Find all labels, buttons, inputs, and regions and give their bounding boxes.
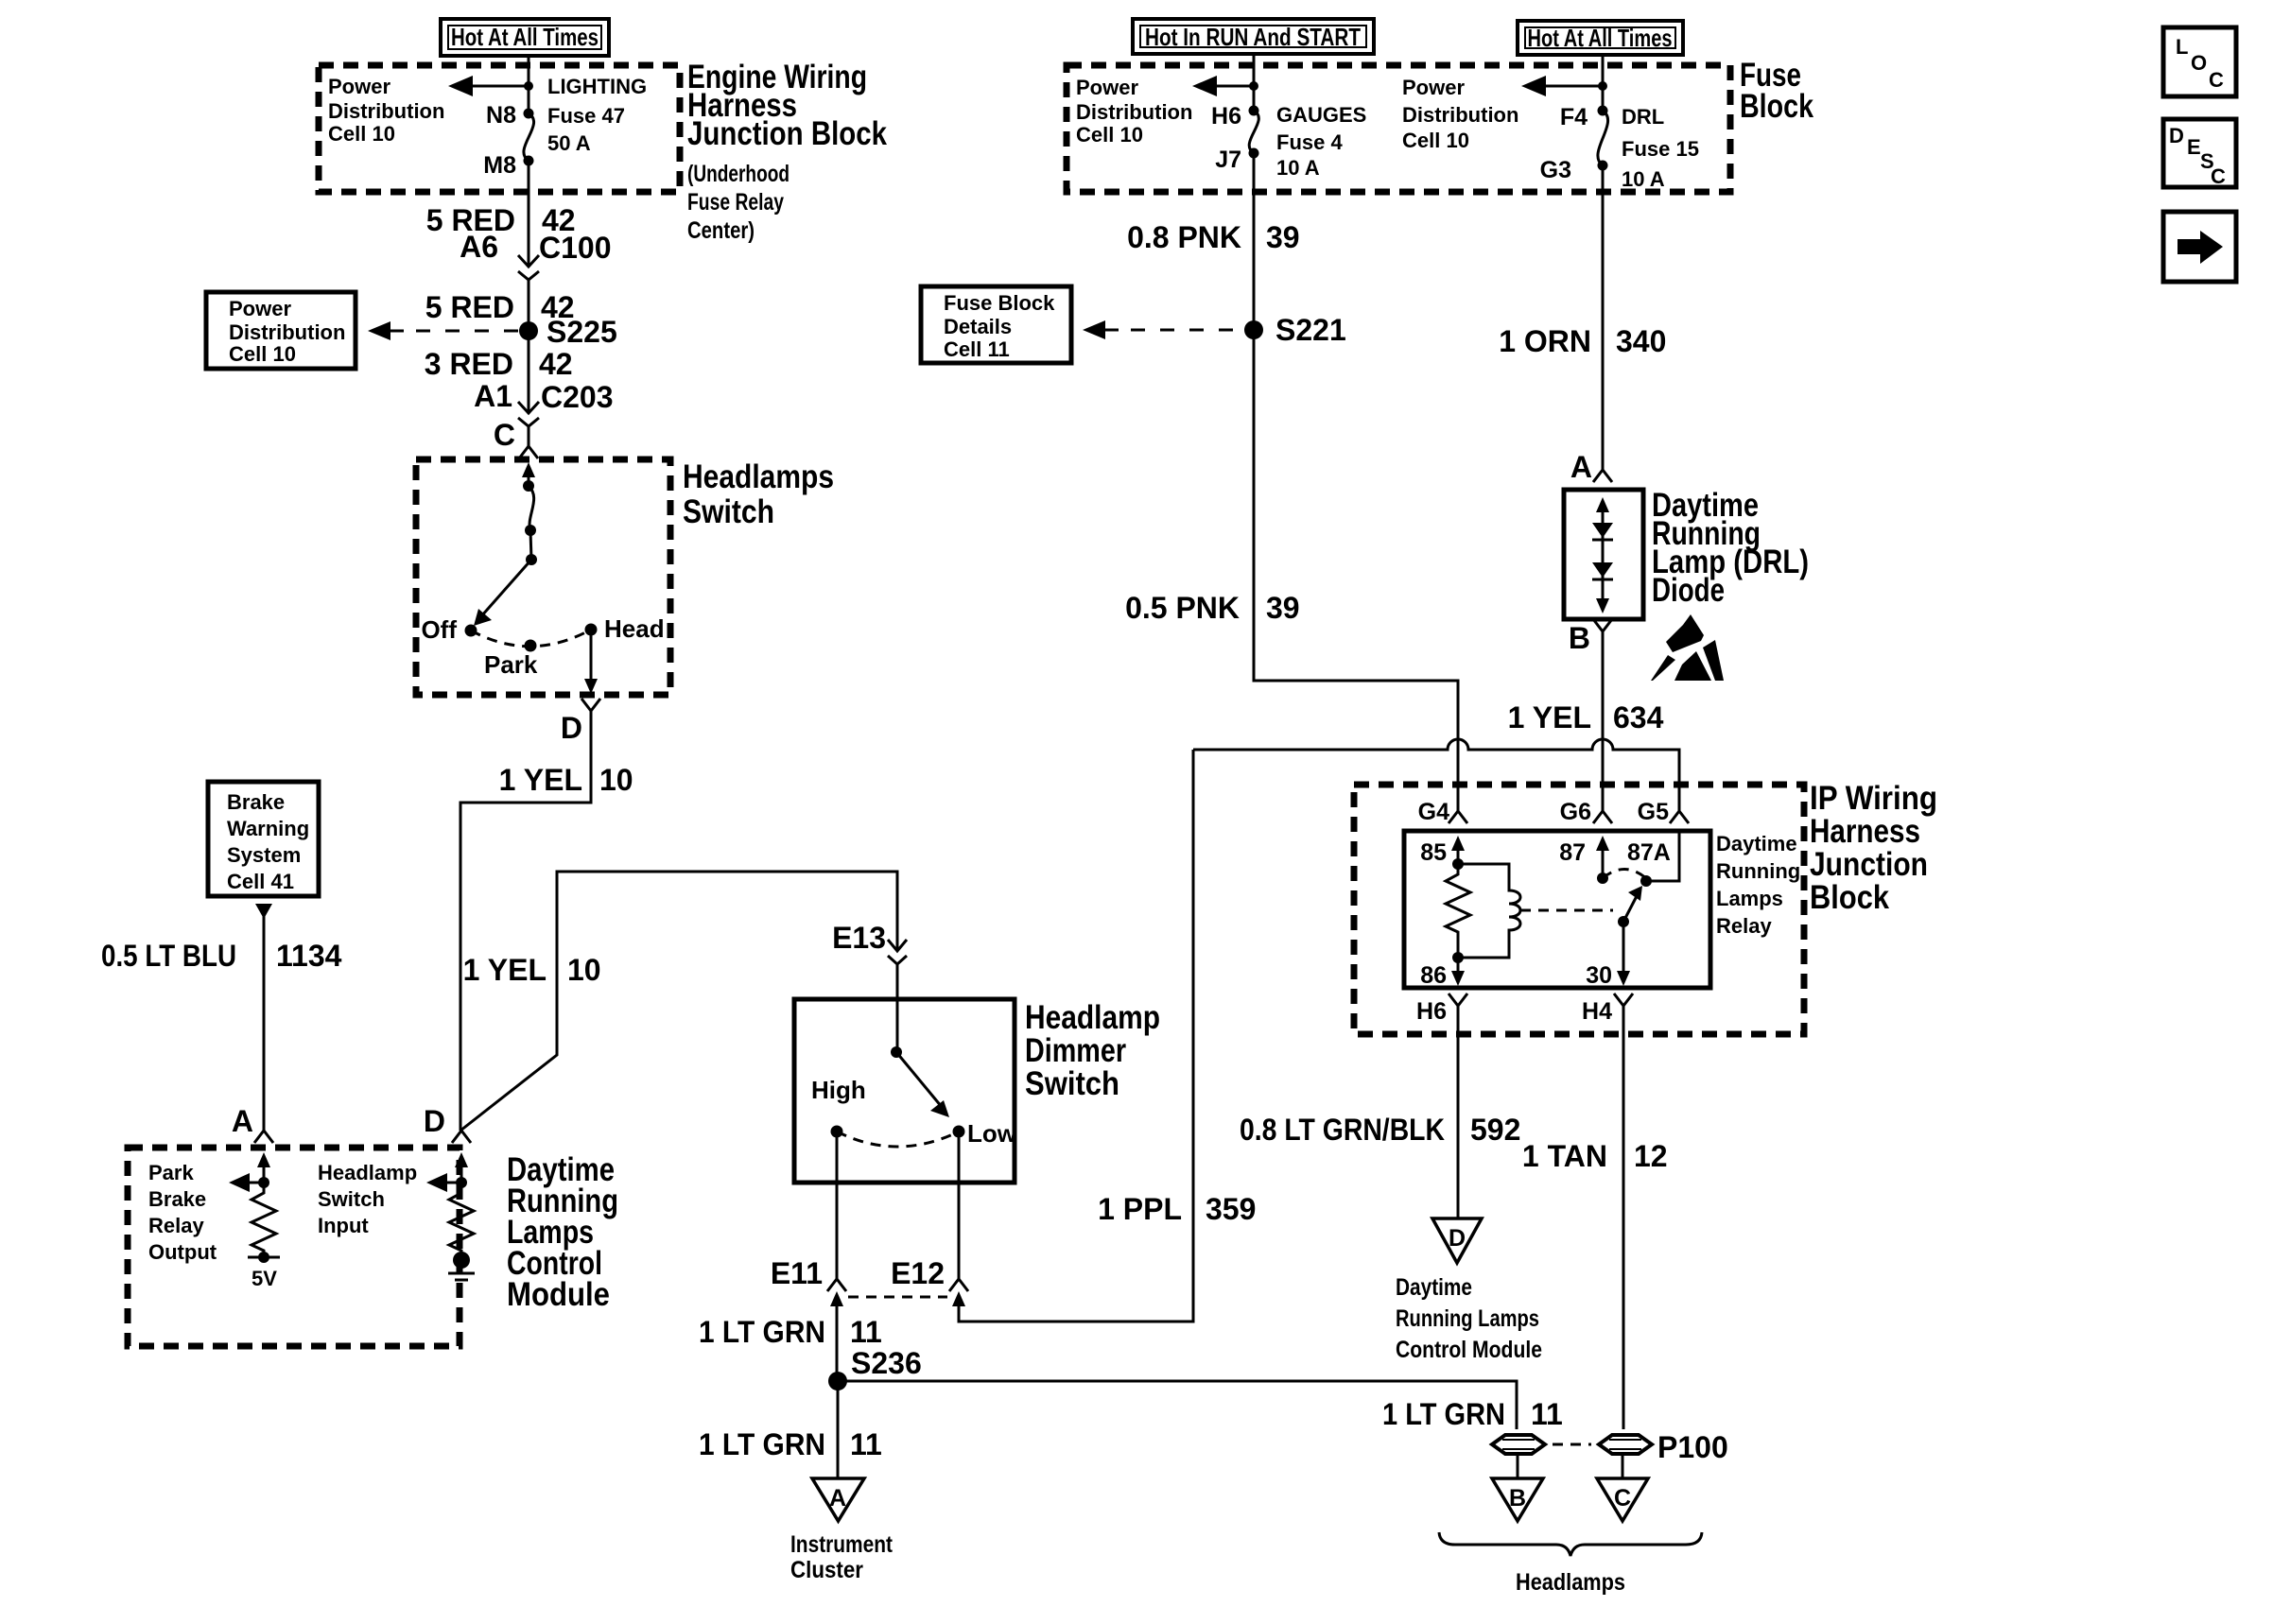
svg-text:C100: C100	[539, 231, 612, 265]
switch position Head	[585, 614, 665, 643]
connector triangle C to headlamp	[1597, 1478, 1648, 1521]
value label: GAUGES Fuse 4 10 A	[1276, 103, 1366, 180]
svg-text:G4: G4	[1418, 799, 1449, 825]
svg-text:Brake: Brake	[227, 790, 285, 814]
wire: dashed arrow from S221 to Fuse Block Details	[1083, 320, 1244, 339]
label: Power Distribution Cell 10 (gauges)	[1076, 76, 1192, 147]
svg-text:340: 340	[1616, 324, 1666, 358]
connector C203 pin A1	[474, 379, 613, 426]
svg-text:F4: F4	[1560, 104, 1588, 130]
wire: 1 TAN 12 from H4 down to P100	[1622, 1006, 1625, 1429]
svg-text:C: C	[494, 418, 515, 452]
legend box arrow	[2163, 212, 2236, 282]
svg-text:1 PPL: 1 PPL	[1098, 1192, 1182, 1226]
label: Headlamp Switch Input	[318, 1161, 417, 1237]
svg-text:10 A: 10 A	[1622, 167, 1665, 191]
svg-text:E: E	[2187, 135, 2201, 159]
ESD sensitive symbol	[1651, 614, 1724, 681]
svg-text:5 RED: 5 RED	[425, 290, 514, 324]
module input A internals: park brake relay output	[229, 1152, 270, 1192]
pin B of DRL diode	[1569, 619, 1612, 655]
value label: 1 YEL 10 (second)	[463, 953, 601, 987]
wire: 1 YEL 10 from switch D down and left	[460, 711, 591, 1131]
resistor: park brake pull-up	[252, 1183, 276, 1257]
wire: High output to E11	[836, 1137, 839, 1279]
dashed box: Fuse Block (gauges + DRL fuses)	[1067, 65, 1730, 192]
svg-text:11: 11	[850, 1427, 882, 1461]
svg-text:592: 592	[1470, 1113, 1520, 1147]
wire: Head contact to switch output	[584, 635, 598, 694]
wire: 3 RED 42 segment from S225 to C203	[528, 331, 530, 412]
wire: 5 RED 42 segment from C100 to S225	[528, 280, 530, 331]
svg-text:S225: S225	[547, 315, 617, 349]
svg-text:P100: P100	[1657, 1430, 1728, 1464]
svg-text:Fuse 15: Fuse 15	[1622, 137, 1699, 161]
svg-text:GAUGES: GAUGES	[1276, 103, 1366, 127]
svg-text:D: D	[2169, 124, 2184, 147]
label: Instrument Cluster	[790, 1531, 894, 1583]
svg-text:50 A: 50 A	[547, 131, 591, 155]
svg-text:Cluster: Cluster	[790, 1557, 863, 1583]
svg-text:D: D	[424, 1104, 445, 1138]
node: junction to power distribution	[524, 81, 533, 91]
svg-text:Park: Park	[484, 650, 538, 679]
svg-text:A: A	[829, 1485, 846, 1512]
svg-text:1 LT GRN: 1 LT GRN	[1382, 1397, 1505, 1431]
connector E11	[771, 1256, 846, 1306]
fuse F15 DRL Fuse 15 10A	[1598, 106, 1608, 171]
svg-text:Headlamp: Headlamp	[1025, 999, 1160, 1036]
svg-text:1 YEL: 1 YEL	[499, 763, 582, 797]
legend box LOC	[2163, 27, 2236, 96]
svg-text:Junction: Junction	[1810, 846, 1928, 883]
wire: 1 YEL 634 from diode B to relay pin G6	[1602, 631, 1605, 811]
svg-text:Cell 10: Cell 10	[1402, 129, 1469, 152]
component box: Daytime Running Lamp DRL Diode	[1564, 490, 1643, 619]
svg-text:Warning: Warning	[227, 817, 309, 840]
wire: battery feed from Hot At All Times to fuse 47	[528, 56, 530, 112]
svg-text:H4: H4	[1582, 998, 1612, 1025]
relay coil	[1458, 864, 1520, 958]
svg-text:Cell 10: Cell 10	[328, 122, 395, 146]
svg-text:L: L	[2176, 35, 2188, 59]
svg-text:12: 12	[1634, 1139, 1668, 1173]
connector triangle A to instrument cluster	[812, 1478, 864, 1521]
relay pin 30	[1586, 922, 1630, 989]
pin A of DRL control module	[232, 1104, 273, 1143]
svg-text:634: 634	[1613, 700, 1664, 734]
svg-text:Output: Output	[148, 1240, 217, 1264]
label: Daytime Running Lamps Control Module	[507, 1151, 618, 1313]
label box: Hot At All Times (left)	[441, 19, 609, 56]
svg-text:Off: Off	[421, 615, 457, 644]
wire: 5 RED 42 segment from M8 to C100	[528, 161, 530, 266]
dashed link between P100 halves	[1553, 1443, 1591, 1446]
node: junction to power distribution (DRL)	[1598, 81, 1607, 91]
svg-text:1134: 1134	[276, 939, 342, 973]
svg-text:Harness: Harness	[1810, 813, 1920, 850]
svg-text:E11: E11	[771, 1256, 823, 1290]
value label: 1 PPL 359	[1098, 1192, 1256, 1226]
svg-text:Lamps: Lamps	[1716, 887, 1783, 910]
svg-text:42: 42	[539, 347, 573, 381]
pin A of DRL diode	[1570, 450, 1612, 484]
pin G6	[1560, 799, 1612, 825]
svg-text:Module: Module	[507, 1276, 610, 1313]
svg-text:IP Wiring: IP Wiring	[1810, 780, 1937, 817]
svg-text:30: 30	[1586, 962, 1612, 989]
svg-text:Daytime: Daytime	[1716, 832, 1797, 855]
value label: 5 RED 42	[426, 203, 576, 237]
label: Daytime Running Lamps Relay	[1716, 832, 1800, 938]
wire: 1 PPL 359 bus with crossover hops to relay pin G5	[1193, 739, 1679, 811]
component box: Power Distribution Cell 10	[206, 292, 356, 369]
value label: 1 LT GRN 11 (lower)	[699, 1427, 882, 1461]
wire: E11 down to S236	[836, 1304, 839, 1381]
wire: S236 right to headlamps feed	[838, 1381, 1517, 1429]
dashed box: Daytime Running Lamps Control Module	[128, 1148, 460, 1346]
svg-text:A: A	[1570, 450, 1592, 484]
svg-text:5V: 5V	[252, 1267, 277, 1290]
svg-text:Dimmer: Dimmer	[1025, 1032, 1126, 1069]
svg-text:87: 87	[1559, 839, 1586, 866]
svg-text:Switch: Switch	[1025, 1065, 1119, 1102]
relay armature switch	[1618, 886, 1642, 927]
dashed box: Engine Wiring Harness Junction Block	[319, 65, 680, 192]
connector E13	[832, 921, 907, 964]
svg-text:85: 85	[1420, 839, 1447, 866]
dashed connector link E11-E12	[848, 1296, 947, 1299]
relay pin 85	[1420, 836, 1465, 870]
svg-text:Headlamps: Headlamps	[1516, 1569, 1625, 1596]
svg-text:359: 359	[1206, 1192, 1256, 1226]
svg-text:1 YEL: 1 YEL	[1508, 700, 1591, 734]
svg-text:Fuse Relay: Fuse Relay	[687, 189, 784, 216]
component box: Daytime Running Lamps Relay	[1404, 831, 1710, 988]
wire: dashed arrow from S225 to Power Distribution box	[368, 321, 519, 340]
value label: 0.8 LT GRN/BLK 592	[1240, 1113, 1520, 1147]
svg-text:A: A	[232, 1104, 253, 1138]
value label: 0.5 PNK 39	[1125, 591, 1300, 625]
svg-text:Relay: Relay	[1716, 914, 1772, 938]
component box: Fuse Block Details Cell 11	[921, 286, 1071, 363]
svg-text:A1: A1	[474, 379, 512, 413]
value label: 1 LT GRN 11 (headlamp feed)	[1382, 1397, 1563, 1431]
svg-text:1 TAN: 1 TAN	[1522, 1139, 1607, 1173]
svg-text:Daytime: Daytime	[1396, 1274, 1472, 1301]
ground inside module	[448, 1252, 475, 1280]
svg-text:D: D	[1449, 1225, 1466, 1252]
label: Headlamps Switch	[683, 458, 834, 530]
svg-text:C: C	[1614, 1485, 1631, 1512]
svg-text:O: O	[2191, 51, 2207, 75]
svg-text:1 ORN: 1 ORN	[1499, 324, 1591, 358]
pin G4	[1418, 799, 1467, 825]
svg-text:Details: Details	[944, 315, 1012, 338]
pin D of DRL control module	[424, 1104, 471, 1143]
svg-text:39: 39	[1266, 591, 1300, 625]
fuse F47 LIGHTING Fuse 47 50A	[524, 109, 534, 166]
svg-text:E13: E13	[832, 921, 886, 955]
svg-text:1 YEL: 1 YEL	[463, 953, 547, 987]
legend box DESC	[2163, 119, 2236, 188]
svg-text:Low: Low	[967, 1119, 1017, 1148]
svg-text:B: B	[1509, 1485, 1526, 1512]
svg-text:87A: 87A	[1627, 839, 1671, 866]
svg-text:Running Lamps: Running Lamps	[1396, 1305, 1539, 1332]
diode internals	[1592, 497, 1613, 613]
dimmer switch wiper arm	[891, 1046, 949, 1117]
value label: DRL Fuse 15 10 A	[1622, 105, 1699, 191]
node S221	[1244, 313, 1346, 347]
wire: battery feed down to fuse 15	[1602, 55, 1605, 109]
svg-text:Block: Block	[1810, 879, 1889, 916]
svg-text:A6: A6	[460, 230, 498, 264]
svg-text:Input: Input	[318, 1214, 369, 1237]
svg-text:Cell 41: Cell 41	[227, 870, 294, 893]
svg-text:G6: G6	[1560, 799, 1591, 825]
module input D internals: headlamp switch input	[426, 1152, 468, 1192]
fuse F4 GAUGES Fuse 4 10A	[1249, 106, 1259, 159]
svg-text:10 A: 10 A	[1276, 156, 1320, 180]
svg-text:Brake: Brake	[148, 1187, 206, 1211]
svg-text:C203: C203	[541, 380, 614, 414]
pin H4 of IP junction block	[1582, 993, 1633, 1025]
label: Daytime Running Lamps Control Module (bottom)	[1396, 1274, 1542, 1363]
label: Fuse Block	[1740, 57, 1813, 125]
dimmer position Low	[953, 1119, 1017, 1148]
svg-text:Cell 11: Cell 11	[944, 337, 1010, 361]
svg-text:H6: H6	[1211, 103, 1241, 130]
value label: 0.8 PNK 39	[1127, 220, 1300, 254]
value label: 1 TAN 12	[1522, 1139, 1668, 1173]
value label: 1 YEL 10	[499, 763, 633, 797]
svg-text:Diode: Diode	[1652, 572, 1725, 609]
svg-text:10: 10	[599, 763, 633, 797]
svg-text:Hot At All Times: Hot At All Times	[1528, 24, 1673, 52]
svg-text:Instrument: Instrument	[790, 1531, 894, 1558]
component box: Headlamp Dimmer Switch	[794, 999, 1015, 1183]
svg-text:Power: Power	[1076, 76, 1138, 99]
switch wiper arm arrow to Off	[474, 560, 531, 626]
svg-text:LIGHTING: LIGHTING	[547, 75, 647, 98]
switch position Off	[421, 615, 477, 644]
wire: 0.5 PNK 39 from S221 down to relay pin G4	[1254, 330, 1458, 811]
svg-text:B: B	[1569, 621, 1590, 655]
svg-text:Headlamps: Headlamps	[683, 458, 834, 495]
svg-text:C: C	[2211, 164, 2226, 188]
connector E12	[891, 1256, 968, 1306]
svg-text:E12: E12	[891, 1256, 945, 1290]
svg-text:Hot At All Times: Hot At All Times	[451, 23, 599, 51]
svg-text:86: 86	[1420, 962, 1447, 989]
relay pin 87	[1559, 836, 1609, 884]
svg-text:G3: G3	[1540, 157, 1571, 183]
svg-text:0.8 PNK: 0.8 PNK	[1127, 220, 1241, 254]
switch position Park	[484, 640, 538, 680]
value label: 1 LT GRN 11	[699, 1315, 882, 1349]
label: Power Distribution Cell 10 (engine block)	[328, 75, 444, 146]
label: Engine Wiring Harness Junction Block	[687, 59, 887, 244]
pin C of headlamps switch	[494, 418, 538, 458]
node S225	[519, 315, 617, 349]
wire: arrow to Power Distribution Cell 10	[448, 76, 529, 96]
svg-text:Control Module: Control Module	[1396, 1337, 1542, 1363]
wire: 1 ORN 340 from G3 to diode pin A	[1602, 165, 1605, 470]
svg-text:Switch: Switch	[683, 493, 774, 530]
connector triangle D to DRL control module	[1432, 1218, 1482, 1263]
dashed box: Headlamps Switch	[416, 459, 670, 695]
wire: run/start feed down to fuse 4	[1253, 54, 1256, 109]
label: Headlamp Dimmer Switch	[1025, 999, 1160, 1102]
svg-text:Park: Park	[148, 1161, 194, 1184]
svg-text:N8: N8	[486, 102, 516, 129]
wire: Low output to E12	[958, 1137, 961, 1279]
svg-text:Cell 10: Cell 10	[1076, 123, 1143, 147]
value label: 1 YEL 634	[1508, 700, 1664, 734]
value label: LIGHTING Fuse 47 50 A	[547, 75, 647, 155]
dashed travel arc High-Low	[837, 1132, 959, 1147]
svg-text:H6: H6	[1416, 998, 1447, 1025]
component box: Brake Warning System Cell 41	[208, 782, 319, 896]
svg-text:Center): Center)	[687, 217, 755, 244]
connector P100 right (headlamp C)	[1599, 1430, 1728, 1464]
pin G5	[1638, 799, 1689, 825]
label: Power Distribution Cell 10 (DRL fuse)	[1402, 76, 1518, 152]
label: IP Wiring Harness Junction Block	[1810, 780, 1937, 916]
wire: 0.8 PNK 39 from J7 to S221	[1253, 153, 1256, 330]
svg-text:C: C	[2209, 68, 2224, 92]
label: Daytime Running Lamp (DRL) Diode	[1652, 487, 1809, 609]
svg-text:M8: M8	[483, 152, 516, 179]
svg-text:Switch: Switch	[318, 1187, 385, 1211]
svg-text:S221: S221	[1275, 313, 1346, 347]
wire: right P100 to triangle C	[1622, 1454, 1624, 1478]
wire: E12 low beam to 1 PPL 359	[959, 750, 1193, 1322]
label: Park Brake Relay Output	[148, 1161, 217, 1264]
relay pin 87A	[1627, 831, 1679, 887]
svg-text:Headlamp: Headlamp	[318, 1161, 417, 1184]
svg-text:Distribution: Distribution	[328, 99, 444, 123]
svg-text:Relay: Relay	[148, 1214, 204, 1237]
svg-text:0.5 PNK: 0.5 PNK	[1125, 591, 1240, 625]
value label: 0.5 LT BLU 1134	[101, 939, 342, 973]
dimmer position High	[811, 1076, 866, 1138]
svg-text:(Underhood: (Underhood	[687, 161, 789, 187]
wire: arrow to Power Distribution (DRL)	[1521, 76, 1603, 96]
svg-text:Running: Running	[1716, 859, 1800, 883]
wire: from C203 to headlamps switch pin C	[528, 426, 530, 446]
svg-text:Power: Power	[328, 75, 390, 98]
svg-text:Hot In RUN And START: Hot In RUN And START	[1145, 23, 1361, 51]
svg-text:D: D	[561, 711, 582, 745]
relay coil resistor	[1446, 864, 1470, 958]
svg-text:High: High	[811, 1076, 866, 1104]
grommet connector left (headlamp B)	[1492, 1435, 1545, 1454]
dashed box: IP Wiring Harness Junction Block	[1354, 785, 1804, 1034]
svg-text:Power: Power	[229, 297, 291, 320]
svg-text:Distribution: Distribution	[1076, 100, 1192, 124]
value label: 1 ORN 340	[1499, 324, 1666, 358]
relay pin 86	[1420, 952, 1465, 989]
svg-text:0.5 LT BLU: 0.5 LT BLU	[101, 939, 236, 973]
svg-text:DRL: DRL	[1622, 105, 1664, 129]
svg-text:G5: G5	[1638, 799, 1669, 825]
node: 5V reference	[248, 1252, 280, 1290]
wire: E13 into dimmer switch	[896, 964, 899, 1052]
svg-text:Distribution: Distribution	[1402, 103, 1518, 127]
wire: arrow to Power Distribution (gauges)	[1192, 76, 1254, 96]
svg-text:Distribution: Distribution	[229, 320, 345, 344]
svg-text:11: 11	[850, 1315, 882, 1349]
wire: 0.8 LT GRN/BLK 592 from H6 to module pin D	[1457, 1006, 1460, 1218]
svg-text:Fuse 4: Fuse 4	[1276, 130, 1343, 154]
svg-text:0.8 LT GRN/BLK: 0.8 LT GRN/BLK	[1240, 1113, 1445, 1147]
connector C100 pin A6	[460, 230, 611, 280]
svg-text:3 RED: 3 RED	[425, 347, 513, 381]
node S236	[828, 1346, 922, 1391]
svg-text:11: 11	[1531, 1397, 1563, 1431]
headlamp switch internal contact from pin C	[522, 462, 537, 565]
svg-text:J7: J7	[1215, 147, 1241, 173]
svg-text:39: 39	[1266, 220, 1300, 254]
svg-text:Fuse Block: Fuse Block	[944, 291, 1055, 315]
brace: headlamps group	[1439, 1532, 1702, 1556]
svg-text:1 LT GRN: 1 LT GRN	[699, 1427, 825, 1461]
svg-text:Block: Block	[1740, 88, 1813, 125]
wire: branch from module pin D up to dimmer switch E13	[460, 872, 897, 1131]
svg-text:Power: Power	[1402, 76, 1465, 99]
pin D of headlamps switch	[561, 699, 600, 745]
dashed travel arc Off-Park-Head	[471, 630, 591, 647]
dashed arc between 87 and 87A contacts	[1603, 870, 1646, 879]
resistor: headlamp switch input pull-down	[449, 1183, 474, 1253]
svg-text:1 LT GRN: 1 LT GRN	[699, 1315, 825, 1349]
connector triangle B to headlamp	[1492, 1478, 1543, 1521]
wire: left P100 to triangle B	[1517, 1454, 1519, 1478]
pin H6 of IP junction block	[1416, 993, 1467, 1025]
label box: Hot At All Times (right)	[1518, 21, 1683, 55]
svg-text:10: 10	[567, 953, 601, 987]
value label: 3 RED 42	[425, 347, 573, 381]
wire: brake warning output down to module pin A	[255, 904, 272, 1131]
svg-text:Cell 10: Cell 10	[229, 342, 296, 366]
node: junction to power distribution (gauges)	[1249, 81, 1258, 91]
svg-text:Fuse 47: Fuse 47	[547, 104, 625, 128]
value label: 5 RED 42 (second)	[425, 290, 575, 324]
svg-text:S236: S236	[851, 1346, 922, 1380]
wire: S236 down to instrument cluster	[837, 1381, 840, 1478]
label box: Hot In RUN And START	[1133, 19, 1374, 54]
svg-text:Junction Block: Junction Block	[687, 115, 887, 152]
svg-text:System: System	[227, 843, 301, 867]
dashed actuation link coil to armature	[1520, 909, 1613, 912]
svg-text:Head: Head	[604, 614, 665, 643]
